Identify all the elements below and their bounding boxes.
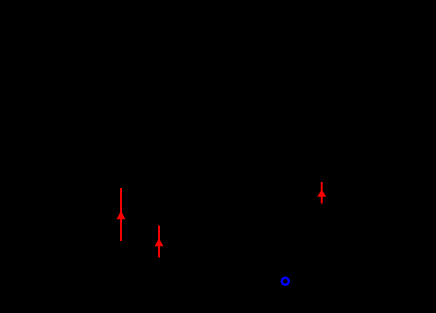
current arrow i2 (red) [155,226,164,258]
resistor R2 [169,60,181,280]
voltage source V1 [48,60,72,280]
resistor R3 [374,60,386,280]
wire top rail [60,59,380,61]
current arrow i3 (red) [317,182,326,204]
node O (blue reference node marker) [282,278,289,285]
wire bottom rail [60,279,380,281]
resistor R1 [129,60,141,280]
ground [276,281,294,303]
current arrow i1 (red) [117,188,126,241]
